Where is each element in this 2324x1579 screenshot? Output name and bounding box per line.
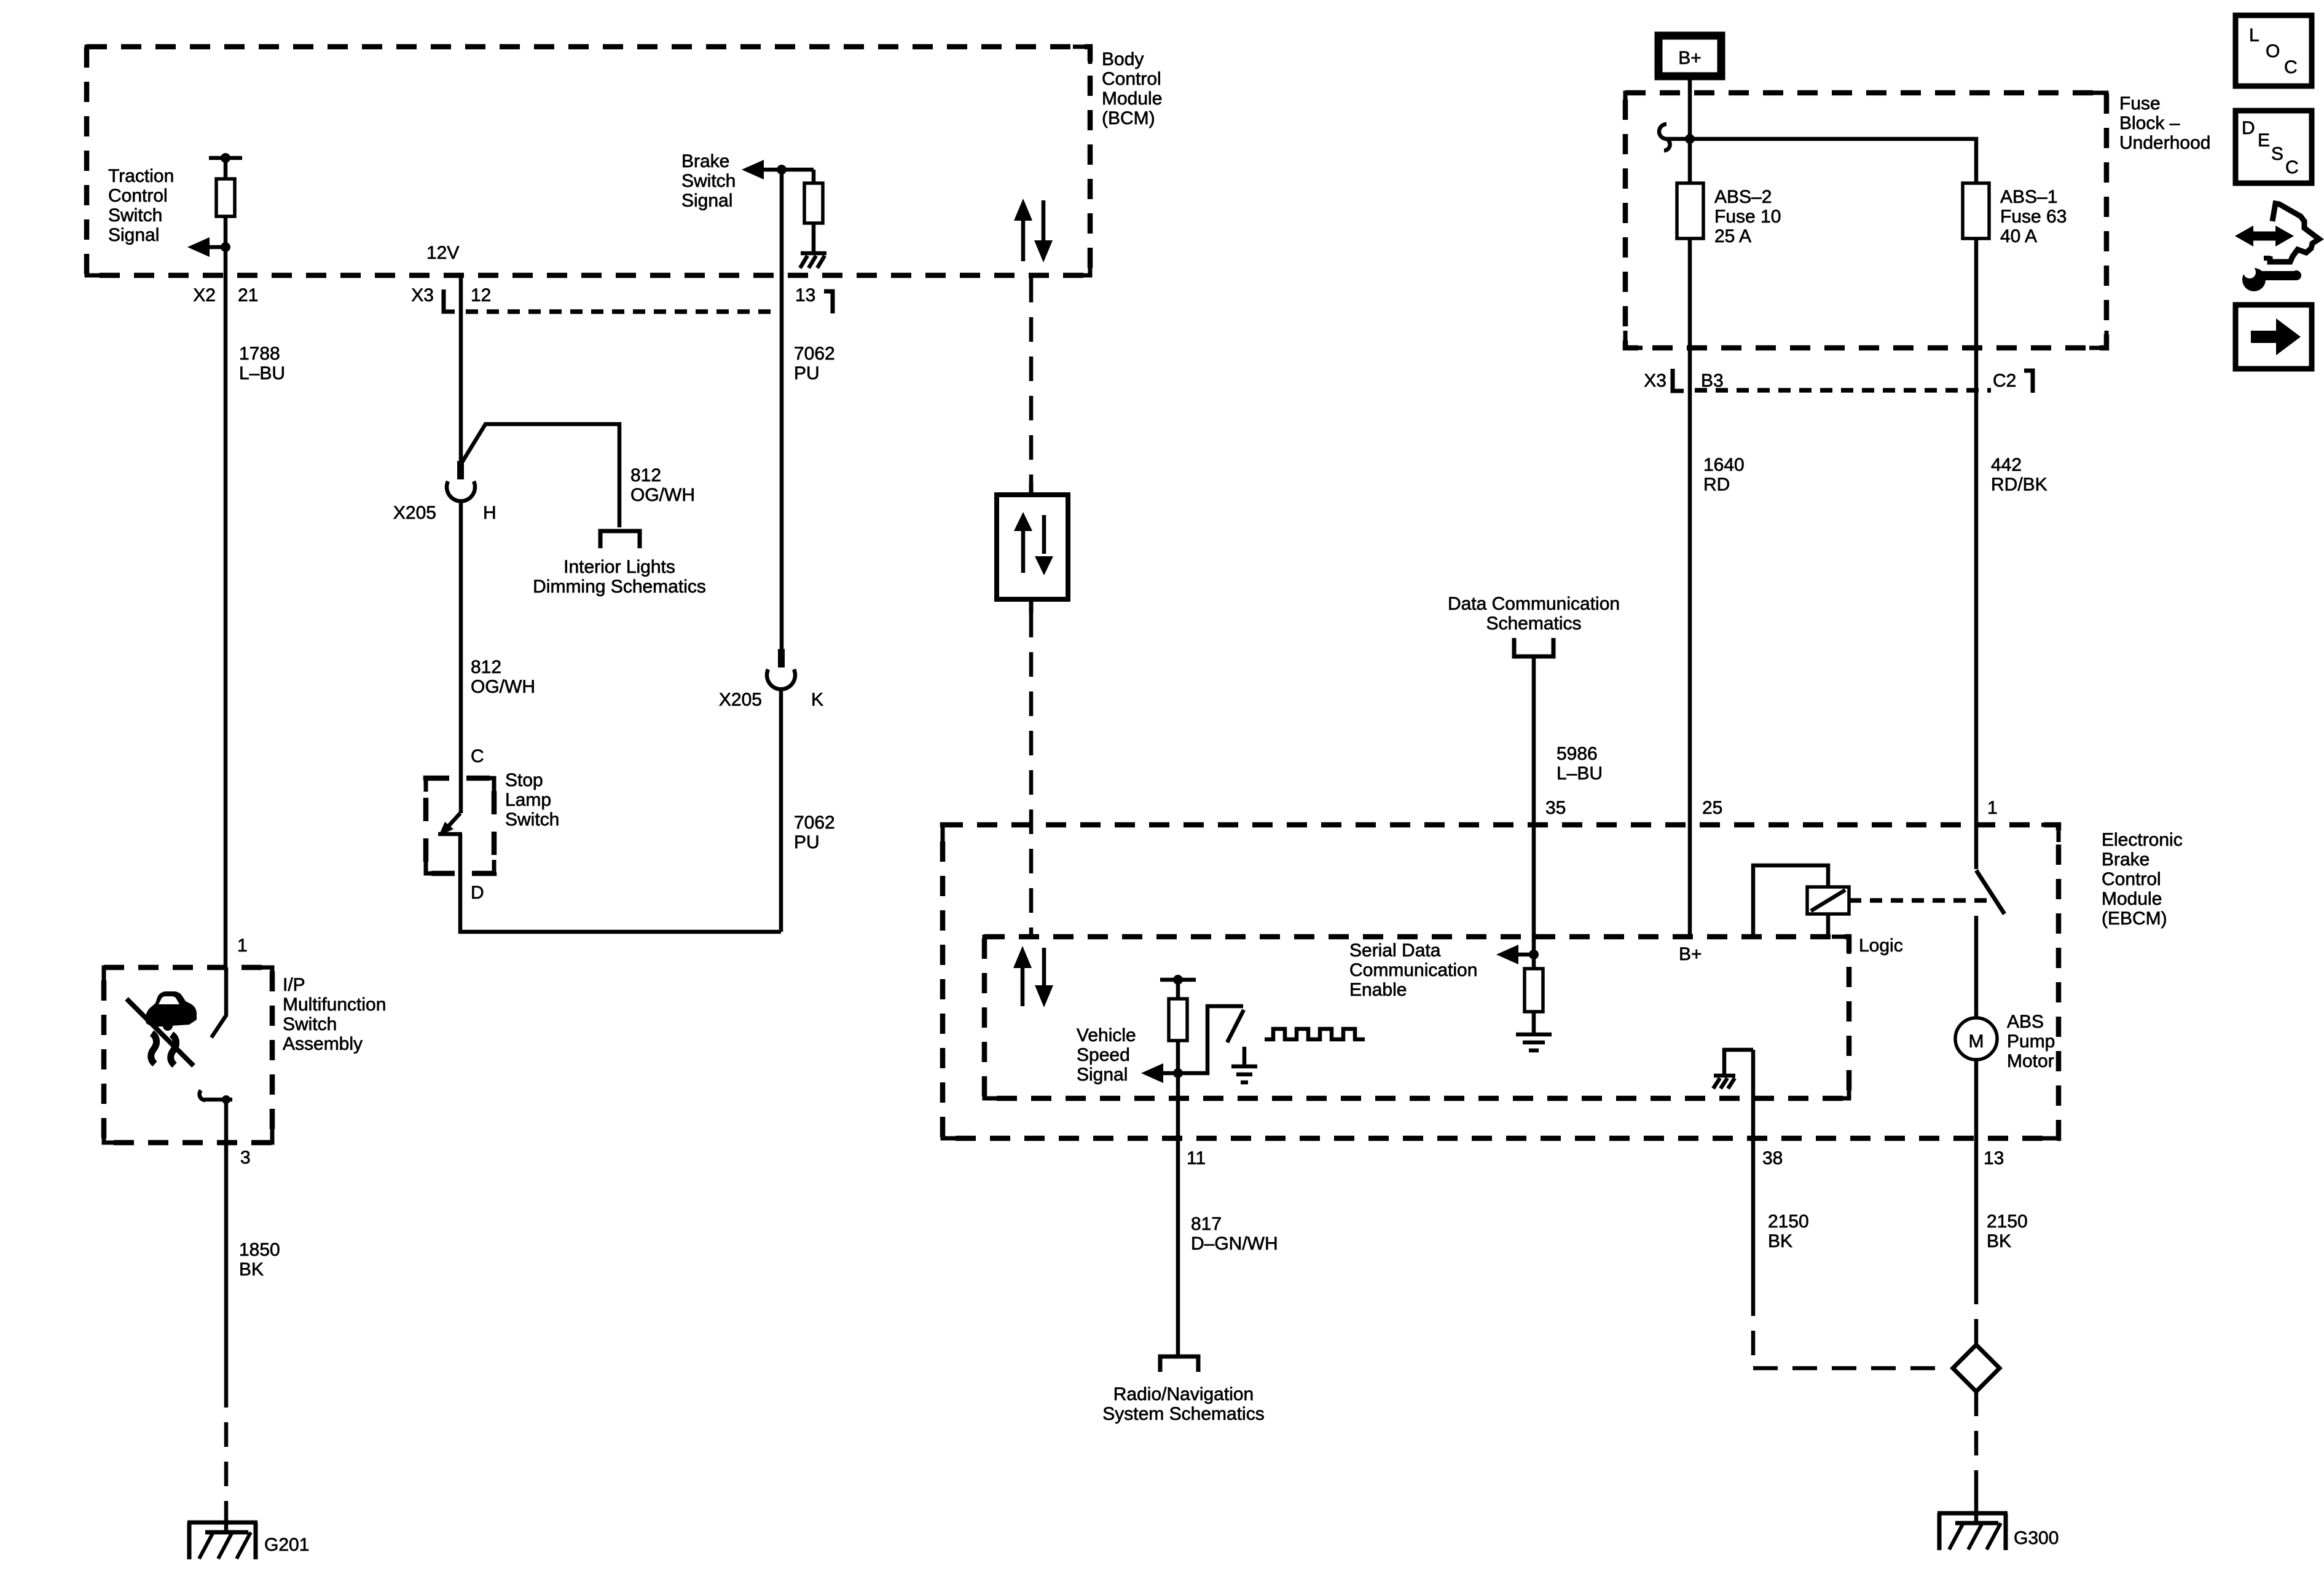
svg-text:M: M: [1969, 1031, 1984, 1052]
arrow serial data communication enable: [1496, 945, 1534, 964]
box B+ battery: [1659, 36, 1721, 76]
svg-text:Dimming Schematics: Dimming Schematics: [533, 577, 706, 597]
wire traction signal down from BCM: [224, 247, 228, 967]
svg-text:2150: 2150: [1987, 1211, 2028, 1232]
wire branch to interior lights: [462, 424, 619, 527]
label 817 D-GN/WH: [1191, 1214, 1278, 1254]
hook current splice: [1659, 124, 1689, 151]
svg-text:ABS–2: ABS–2: [1714, 187, 1772, 207]
bracket fuse connector right: [2024, 371, 2033, 393]
svg-text:B+: B+: [1678, 48, 1702, 68]
label Radio/Navigation System Schematics: [1102, 1384, 1264, 1424]
wire 812 OG/WH from BCM pin 12: [459, 275, 463, 465]
wire 442 RD/BK: [1974, 348, 1979, 825]
svg-text:Stop: Stop: [505, 770, 543, 790]
svg-text:(BCM): (BCM): [1102, 108, 1155, 128]
svg-text:Switch: Switch: [283, 1014, 337, 1034]
svg-text:C: C: [2285, 157, 2299, 178]
icon box LOC: [2236, 15, 2312, 86]
stop lamp switch dashed box: [426, 778, 494, 873]
svg-text:BK: BK: [1987, 1231, 2011, 1251]
wire serial data inside EBCM: [1532, 825, 1536, 969]
svg-text:BK: BK: [239, 1259, 264, 1280]
svg-text:Lamp: Lamp: [505, 790, 551, 810]
svg-text:Block –: Block –: [2119, 113, 2180, 133]
label 2150 BK left: [1768, 1211, 1809, 1251]
pin X3 B3: [1644, 371, 1723, 391]
contact stop lamp lower: [438, 832, 462, 837]
svg-text:Fuse 63: Fuse 63: [2000, 207, 2067, 227]
svg-text:817: 817: [1191, 1214, 1222, 1234]
resistor vehicle speed: [1160, 975, 1196, 1073]
svg-text:Switch: Switch: [681, 171, 736, 191]
label Traction Control Switch Signal: [108, 166, 174, 245]
svg-text:1640: 1640: [1703, 455, 1745, 475]
I/P multifunction switch assembly dashed box: [104, 967, 272, 1143]
svg-text:Data Communication: Data Communication: [1448, 594, 1620, 614]
connector X205 H: [447, 461, 475, 813]
resistor serial data: [1525, 969, 1543, 1012]
arrow traction control switch signal: [187, 237, 226, 257]
svg-text:Underhood: Underhood: [2119, 133, 2210, 153]
svg-text:X3: X3: [411, 285, 434, 305]
svg-text:D: D: [471, 883, 484, 903]
svg-text:System Schematics: System Schematics: [1102, 1404, 1264, 1424]
arrow BCM serial down: [1034, 200, 1053, 262]
svg-text:35: 35: [1545, 798, 1566, 818]
svg-text:25: 25: [1702, 798, 1722, 818]
svg-text:L–BU: L–BU: [1557, 763, 1603, 784]
svg-text:S: S: [2271, 144, 2283, 164]
svg-text:1: 1: [237, 935, 248, 956]
svg-text:7062: 7062: [794, 813, 835, 833]
icon box DESC: [2236, 111, 2312, 183]
label ABS Pump Motor: [2007, 1012, 2055, 1071]
svg-text:Switch: Switch: [108, 205, 162, 226]
wire pump motor to pin 13: [1974, 1060, 1979, 1280]
EBCM inner logic dashed box: [984, 937, 1849, 1098]
svg-text:1850: 1850: [239, 1240, 280, 1260]
svg-text:Body: Body: [1102, 49, 1144, 69]
svg-text:Module: Module: [1102, 89, 1162, 109]
label Stop Lamp Switch: [505, 770, 559, 830]
wire ABS-1 to pin C2: [1974, 238, 1979, 348]
svg-text:K: K: [811, 690, 823, 710]
label Serial Data Communication Enable: [1349, 940, 1477, 1000]
svg-text:ABS: ABS: [2007, 1012, 2044, 1032]
svg-text:X205: X205: [393, 503, 436, 523]
icon box forward arrow: [2236, 305, 2312, 369]
svg-text:Speed: Speed: [1077, 1045, 1130, 1065]
svg-text:21: 21: [238, 285, 258, 305]
label 442 RD/BK: [1991, 455, 2047, 495]
wire 1640 inside EBCM: [1688, 825, 1692, 937]
svg-text:Pump: Pump: [2007, 1031, 2055, 1052]
svg-text:PU: PU: [794, 363, 820, 384]
switch speed sensor blade: [1227, 1010, 1244, 1042]
svg-text:C2: C2: [1993, 371, 2016, 391]
svg-text:Module: Module: [2102, 889, 2162, 909]
bracket connector X3 left: [444, 289, 455, 312]
label 812 OG/WH right branch: [630, 465, 695, 505]
ground G201: [187, 1522, 257, 1559]
label Fuse Block - Underhood: [2119, 93, 2210, 153]
wire dashed pin13 to splice: [1974, 1280, 1979, 1345]
bracket fuse connector left: [1673, 369, 1684, 391]
wire pin 38: [1751, 1050, 1756, 1291]
wire dashed BCM to EBCM serial: [1029, 278, 1034, 937]
svg-text:RD/BK: RD/BK: [1991, 474, 2047, 495]
svg-text:D–GN/WH: D–GN/WH: [1191, 1234, 1278, 1254]
svg-text:Traction: Traction: [108, 166, 174, 186]
wire 442 inside EBCM: [1974, 825, 1979, 869]
wire to signal ground: [1532, 1012, 1536, 1033]
node brake signal junction: [777, 165, 787, 175]
wire 1640 RD: [1688, 348, 1692, 825]
label 1850 BK: [239, 1240, 280, 1280]
svg-text:Fuse 10: Fuse 10: [1714, 207, 1781, 227]
symbol two-way serial data box: [997, 482, 1068, 613]
svg-text:Brake: Brake: [681, 151, 729, 171]
svg-text:OG/WH: OG/WH: [630, 485, 695, 505]
svg-text:I/P: I/P: [283, 975, 305, 995]
label Body Control Module (BCM): [1102, 49, 1162, 128]
pin X2 21: [193, 285, 258, 305]
wire 5986 L-BU: [1532, 658, 1536, 825]
bracket from data communication schematics: [1514, 638, 1553, 656]
wire I/P lower: [224, 1100, 229, 1383]
svg-text:Logic: Logic: [1859, 935, 1903, 956]
svg-text:Control: Control: [108, 186, 168, 206]
svg-text:E: E: [2258, 130, 2270, 151]
connector X205 K: [767, 649, 795, 932]
wire speed sensor switch: [1178, 1006, 1243, 1073]
connector line X3 12-13: [466, 309, 773, 314]
svg-text:13: 13: [795, 285, 815, 305]
node fuse feed junction: [1685, 134, 1695, 144]
waveform speed signal: [1265, 1029, 1365, 1039]
svg-text:3: 3: [240, 1148, 251, 1168]
svg-text:BK: BK: [1768, 1231, 1792, 1251]
ground signal serial data: [1516, 1034, 1552, 1050]
svg-text:38: 38: [1762, 1148, 1783, 1168]
arrow vehicle speed signal: [1141, 1063, 1178, 1083]
label 2150 BK right: [1987, 1211, 2028, 1251]
svg-text:ABS–1: ABS–1: [2000, 187, 2057, 207]
svg-text:RD: RD: [1703, 474, 1730, 495]
relay coil EBCM pump: [1753, 865, 1849, 937]
switch pump motor blade: [1976, 870, 2004, 914]
label Data Communication Schematics: [1448, 594, 1620, 634]
fuse ABS-2 Fuse 10 25A: [1677, 183, 1703, 238]
arrow BCM serial up: [1014, 199, 1032, 261]
ground signal speed sensor: [1231, 1047, 1257, 1082]
wire B+ feed: [1688, 80, 1692, 183]
label 5986 L-BU: [1557, 744, 1603, 784]
bracket connector X3 right: [824, 291, 833, 313]
wire to pump motor: [1974, 916, 1979, 1018]
svg-text:Switch: Switch: [505, 809, 559, 830]
fuse block underhood dashed box: [1625, 93, 2106, 348]
svg-text:12: 12: [471, 285, 491, 305]
svg-text:Control: Control: [1102, 69, 1161, 89]
svg-text:D: D: [2242, 118, 2255, 138]
switch stop lamp blade: [439, 813, 460, 836]
ground chassis inside BCM: [800, 253, 826, 268]
svg-text:13: 13: [1984, 1148, 2004, 1168]
arrow EBCM serial down: [1035, 948, 1053, 1007]
svg-text:X2: X2: [193, 285, 216, 305]
arrow EBCM serial up: [1013, 946, 1032, 1006]
svg-text:812: 812: [630, 465, 661, 486]
label Vehicle Speed Signal: [1077, 1025, 1136, 1085]
svg-text:PU: PU: [794, 832, 820, 853]
pin X3 12: [411, 285, 491, 305]
motor ABS pump: [1955, 1018, 1997, 1060]
label Brake Switch Signal: [681, 151, 736, 211]
node serial data junction: [1529, 950, 1539, 959]
contact I/P momentary: [200, 1090, 232, 1100]
svg-text:H: H: [483, 503, 497, 523]
wire dashed to G201: [224, 1383, 229, 1502]
svg-text:OG/WH: OG/WH: [471, 677, 535, 697]
ground chassis EBCM pin 38: [1713, 1050, 1753, 1089]
svg-text:Schematics: Schematics: [1486, 613, 1581, 634]
switch I/P traction blade: [211, 967, 226, 1038]
wire dashed splice to G300: [1974, 1392, 1979, 1494]
svg-text:Multifunction: Multifunction: [283, 994, 386, 1015]
svg-text:40 A: 40 A: [2000, 226, 2037, 246]
svg-text:Vehicle: Vehicle: [1077, 1025, 1136, 1045]
wire 817 through pin 11: [1176, 1073, 1180, 1355]
ground G300: [1937, 1513, 2008, 1550]
svg-text:12V: 12V: [426, 243, 459, 263]
svg-text:Brake: Brake: [2102, 849, 2149, 870]
svg-text:1788: 1788: [239, 344, 280, 364]
wire dashed pin38 to splice: [1753, 1291, 1949, 1368]
resistor brake switch pull-down: [804, 170, 823, 253]
svg-text:Electronic: Electronic: [2102, 830, 2183, 850]
icon diagnostic wrench: [2235, 203, 2319, 291]
label 1788 L-BU: [239, 344, 285, 384]
svg-text:7062: 7062: [794, 344, 835, 364]
resistor traction control pull-up: [209, 153, 242, 247]
svg-text:Signal: Signal: [1077, 1065, 1128, 1085]
svg-text:L: L: [2249, 25, 2259, 45]
svg-text:C: C: [2284, 57, 2298, 77]
node traction signal junction: [221, 242, 230, 252]
EBCM dashed box: [943, 825, 2059, 1138]
svg-text:Motor: Motor: [2007, 1051, 2054, 1071]
svg-text:812: 812: [471, 657, 501, 677]
splice diamond S-connection: [1953, 1345, 2000, 1392]
wire ABS-2 to pin B3: [1688, 238, 1692, 348]
svg-text:G300: G300: [2014, 1528, 2059, 1548]
svg-text:442: 442: [1991, 455, 2022, 475]
svg-text:Enable: Enable: [1349, 980, 1407, 1000]
svg-text:2150: 2150: [1768, 1211, 1809, 1232]
svg-text:5986: 5986: [1557, 744, 1598, 764]
svg-text:Fuse: Fuse: [2119, 93, 2161, 114]
svg-text:Assembly: Assembly: [283, 1034, 363, 1054]
svg-text:L–BU: L–BU: [239, 363, 285, 384]
icon traction control slip: [127, 991, 197, 1066]
bracket to radio navigation: [1160, 1357, 1198, 1372]
svg-text:Signal: Signal: [681, 191, 732, 211]
svg-text:B3: B3: [1701, 371, 1724, 391]
label X205 K: [719, 690, 823, 710]
svg-text:Control: Control: [2102, 869, 2161, 889]
link relay to switch dotted: [1849, 898, 1988, 903]
wire stop lamp to 7062: [460, 834, 781, 932]
label 7062 PU lower: [794, 813, 835, 853]
label Electronic Brake Control Module (EBCM): [2102, 830, 2183, 929]
label 7062 PU upper: [794, 344, 835, 384]
svg-text:Communication: Communication: [1349, 960, 1477, 980]
arrow brake switch signal: [742, 160, 814, 179]
svg-text:X3: X3: [1644, 371, 1666, 391]
label 1640 RD: [1703, 455, 1745, 495]
fuse ABS-1 Fuse 63 40A: [1963, 183, 1989, 238]
svg-text:(EBCM): (EBCM): [2102, 908, 2167, 929]
label X205 H: [393, 503, 497, 523]
wire distribution to ABS-1: [1690, 139, 1976, 183]
svg-text:B+: B+: [1679, 944, 1702, 964]
svg-text:Signal: Signal: [108, 225, 159, 245]
svg-text:Serial Data: Serial Data: [1349, 940, 1441, 961]
svg-text:G201: G201: [264, 1535, 309, 1555]
svg-text:25 A: 25 A: [1714, 226, 1751, 246]
svg-text:Interior Lights: Interior Lights: [563, 557, 675, 577]
connector line B3-C2: [1695, 388, 1991, 393]
label I/P Multifunction Switch Assembly: [283, 975, 386, 1054]
label 812 OG/WH lower: [471, 657, 535, 697]
svg-text:O: O: [2266, 41, 2280, 61]
svg-text:1: 1: [1987, 798, 1998, 818]
bracket to interior lights schematics: [600, 531, 640, 548]
node vehicle speed junction: [1173, 1068, 1183, 1078]
svg-text:11: 11: [1187, 1148, 1206, 1168]
BCM dashed box: [87, 47, 1090, 275]
wire brake switch 7062 from BCM: [780, 170, 784, 652]
svg-text:Radio/Navigation: Radio/Navigation: [1113, 1384, 1254, 1404]
svg-text:C: C: [471, 746, 484, 766]
label Interior Lights Dimming Schematics: [533, 557, 706, 597]
svg-text:X205: X205: [719, 690, 762, 710]
